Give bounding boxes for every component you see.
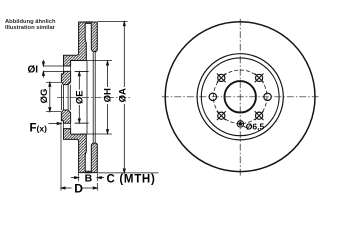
vent slot closing line at OD bottom (85, 172, 92, 174)
outer circle OD (165, 22, 315, 172)
section centerline (57, 96, 131, 98)
visible vent wall edge left (86, 61, 88, 135)
svg-text:ØH: ØH (103, 88, 114, 102)
locating hole Ø6,5 (237, 121, 246, 128)
hat step line upper (75, 70, 89, 72)
note text "Abbildung ähnlich / Illustration similar" (5, 19, 56, 31)
dimension ØE (78, 72, 80, 123)
dimension B (71, 173, 104, 181)
dimension D (61, 122, 97, 191)
section lower boss (mirror) (61, 110, 70, 123)
svg-text:C (MTH): C (MTH) (107, 174, 156, 186)
center bore (225, 81, 256, 112)
dimension F(x) (49, 122, 62, 124)
svg-text:ØI: ØI (28, 64, 39, 75)
svg-text:D: D (74, 182, 83, 196)
hub outer circle (197, 54, 283, 140)
wheel bolt hole top-right (255, 74, 264, 83)
vent slot closing line at OD top (85, 21, 92, 23)
svg-text:Illustration similar: Illustration similar (5, 25, 56, 31)
bore wall edge lines seen through bore (61, 85, 70, 110)
dimension ØI (42, 60, 63, 78)
hub inner circle (201, 58, 279, 136)
wheel bolt hole bottom-right (255, 111, 264, 120)
dimension ØG (46, 82, 61, 111)
plain hole right (264, 93, 271, 100)
svg-text:Ø6,5: Ø6,5 (246, 122, 265, 132)
section upper body: ring + hat + flange top strip (hatched) (64, 22, 98, 66)
vertical centerline right view (239, 19, 241, 176)
svg-text:ØG: ØG (39, 89, 50, 104)
wheel bolt hole bottom-left (217, 111, 226, 120)
bolt circle (dashed) (213, 70, 267, 124)
section lower body (mirror) (64, 129, 98, 173)
hat step line lower (75, 122, 89, 124)
dimension ØA (98, 22, 159, 173)
plain hole left (209, 93, 216, 100)
flange hole edge lines upper (64, 66, 71, 71)
dimension ØH (80, 61, 112, 134)
horizontal centerline right view (162, 96, 319, 98)
svg-text:B: B (85, 173, 93, 185)
visible vent wall edge right (94, 52, 96, 143)
section upper boss: flange lower strip + hub boss (hatched) (61, 71, 70, 84)
wheel bolt hole top-left (217, 74, 226, 83)
visible vent wall edge mid (92, 52, 94, 143)
svg-text:F(x): F(x) (30, 123, 48, 135)
svg-text:ØA: ØA (118, 88, 129, 102)
flange hole edge lines lower (64, 123, 71, 128)
svg-text:ØE: ØE (75, 90, 86, 104)
